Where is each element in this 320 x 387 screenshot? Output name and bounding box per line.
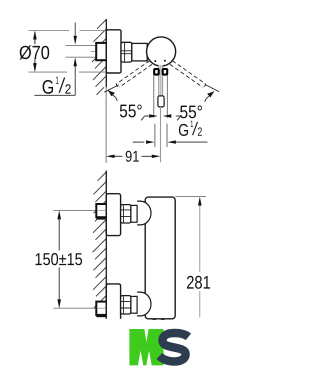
lever flank lines	[154, 75, 168, 118]
flange (top view)	[106, 30, 121, 73]
281 ext line	[175, 196, 206, 198]
in-wall nut lower	[96, 302, 106, 315]
wall hatching (bottom view)	[93, 172, 107, 316]
dashed tilted lever right	[170, 61, 206, 87]
connector (top view)	[132, 43, 147, 61]
thread lines (pipe in wall)	[66, 46, 96, 58]
flange lower (cropped bottom)	[106, 284, 120, 319]
G 1/2 top	[43, 80, 53, 94]
centerline stubs inside nuts	[98, 209, 105, 211]
dots on ball	[154, 60, 156, 62]
G1/2 (2) arrows	[133, 141, 145, 143]
body	[145, 197, 175, 319]
91	[126, 151, 139, 162]
wall extension line down to 91 dim	[105, 87, 107, 163]
G 1/2 right	[179, 124, 188, 136]
outlet stubs at bottom	[151, 319, 157, 320]
wall surface line (top view)	[105, 19, 107, 87]
flange upper	[106, 194, 120, 236]
in-wall nut (top view)	[96, 43, 106, 60]
dim 70: line + arrows	[34, 32, 36, 71]
connector upper	[131, 205, 137, 222]
150 dim line + arrows	[58, 220, 60, 251]
281 dim line	[199, 206, 201, 272]
G1/2 leader with thread arrows	[34, 23, 75, 96]
hex nut (top view)	[121, 42, 132, 62]
centerline below grip	[160, 107, 162, 162]
hex nut lower	[121, 296, 131, 314]
ball body (top view)	[147, 37, 176, 66]
boss upper	[137, 201, 151, 225]
dashed tilted lever left	[116, 61, 152, 87]
nipple ext lines	[155, 124, 167, 147]
boss lower	[137, 292, 151, 316]
91 dim	[111, 155, 123, 157]
conn centerline lower	[53, 307, 96, 309]
mount squares	[154, 69, 159, 75]
hex nut upper	[121, 205, 131, 223]
Ø70	[20, 45, 50, 59]
wall surface line (bottom view)	[105, 171, 107, 316]
55 deg arrows + leader tails	[108, 91, 116, 98]
conn centerline upper	[53, 209, 96, 211]
in-wall nut upper	[96, 204, 106, 217]
texts (bottom view)	[36, 253, 210, 289]
55 deg ext segments	[104, 85, 118, 92]
pipe centerline stub	[91, 50, 96, 52]
wall hatching (top view)	[92, 20, 106, 95]
grip	[158, 96, 164, 107]
S	[159, 333, 188, 362]
ext line flange top	[29, 30, 107, 32]
55 left	[120, 104, 142, 117]
M	[129, 329, 163, 365]
lever stem	[159, 65, 163, 96]
55 right	[180, 105, 202, 118]
connector lower	[131, 296, 137, 313]
ext line flange bottom	[29, 71, 107, 73]
horizontal arrow line at lever center	[145, 115, 150, 117]
